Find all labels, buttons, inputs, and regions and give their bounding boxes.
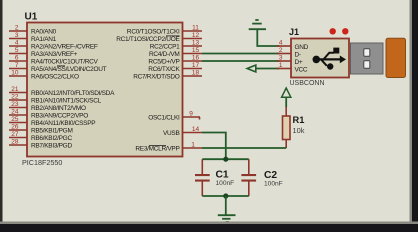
U1 left pin numbers: [11, 25, 19, 146]
J1 inside pin names: [295, 44, 309, 74]
svg-text:21: 21: [11, 86, 19, 93]
svg-text:RB6/KBI2/PGC: RB6/KBI2/PGC: [31, 135, 72, 142]
svg-text:3: 3: [279, 55, 283, 62]
U1 left pin labels: [31, 29, 115, 150]
wire D+ (U1 pin16 to J1 pin3): [202, 60, 280, 62]
svg-text:RA1/AN1: RA1/AN1: [31, 36, 57, 43]
svg-text:RB3/AN9/CCP2/VPO: RB3/AN9/CCP2/VPO: [31, 113, 88, 120]
svg-text:13: 13: [192, 40, 200, 47]
svg-text:RA4/T0CKI/C1OUT/RCV: RA4/T0CKI/C1OUT/RCV: [31, 59, 99, 66]
svg-text:14: 14: [192, 126, 200, 133]
svg-text:22: 22: [11, 94, 19, 101]
svg-text:D-: D-: [295, 52, 301, 59]
U1 right pin labels: [116, 29, 180, 153]
svg-text:RB0/AN12/INT0/FLT0/SDI/SDA: RB0/AN12/INT0/FLT0/SDI/SDA: [31, 90, 115, 97]
svg-text:RC4/D-/VM: RC4/D-/VM: [149, 51, 180, 58]
svg-text:VUSB: VUSB: [163, 130, 180, 137]
svg-text:26: 26: [11, 124, 19, 131]
svg-text:J1: J1: [289, 27, 299, 37]
svg-text:RC1/T1OSI/CCP2/UOE: RC1/T1OSI/CCP2/UOE: [116, 36, 180, 43]
chip U1 body: [22, 12, 183, 168]
svg-text:RA2/AN2/VREF-/CVREF: RA2/AN2/VREF-/CVREF: [31, 44, 98, 51]
svg-text:27: 27: [11, 131, 19, 138]
svg-text:7: 7: [15, 62, 19, 69]
ground (bottom): [218, 196, 236, 222]
svg-text:16: 16: [192, 55, 200, 62]
ground (top, inverted): [249, 20, 280, 46]
svg-text:1: 1: [191, 142, 195, 149]
svg-text:10k: 10k: [293, 126, 305, 135]
svg-text:RA0/AN0: RA0/AN0: [31, 29, 57, 36]
svg-text:RC7/RX/DT/SDO: RC7/RX/DT/SDO: [133, 74, 180, 81]
wire MCLR (U1 pin1 to R1 bottom): [202, 147, 286, 149]
svg-text:R1: R1: [293, 115, 305, 125]
U1 left pins (stubs): [9, 31, 27, 145]
svg-text:VCC: VCC: [295, 67, 308, 74]
capacitor C1: [195, 159, 234, 196]
power terminal (left arrow) on VCC: [247, 65, 279, 72]
svg-text:23: 23: [11, 101, 19, 108]
svg-text:17: 17: [192, 62, 200, 69]
svg-text:RC0/T1OSO/T1CKI: RC0/T1OSO/T1CKI: [127, 29, 180, 36]
U1 right pins (stubs): [183, 31, 203, 148]
svg-text:RB5/KBI1/PGM: RB5/KBI1/PGM: [31, 128, 73, 135]
svg-text:RB1/AN10/INT1/SCK/SCL: RB1/AN10/INT1/SCK/SCL: [31, 98, 102, 105]
svg-text:5: 5: [15, 47, 19, 54]
svg-text:RB2/AN8/INT2/VMO: RB2/AN8/INT2/VMO: [31, 105, 86, 112]
overlines: [57, 36, 180, 145]
wire D- (U1 pin15 to J1 pin2): [202, 53, 280, 55]
connector J1 body: [289, 27, 349, 87]
window frame edges (decorative): [0, 0, 3, 232]
svg-text:1: 1: [279, 62, 283, 69]
svg-text:RC5/D+/VP: RC5/D+/VP: [148, 59, 179, 66]
USB trident icon: [313, 48, 347, 70]
svg-text:28: 28: [11, 139, 19, 146]
svg-text:GND: GND: [295, 44, 309, 51]
svg-text:RC2/CCP1: RC2/CCP1: [150, 44, 180, 51]
svg-text:PIC18F2550: PIC18F2550: [22, 158, 62, 167]
svg-text:USBCONN: USBCONN: [290, 80, 325, 87]
svg-text:6: 6: [15, 55, 19, 62]
svg-text:2: 2: [279, 47, 283, 54]
svg-text:9: 9: [189, 111, 193, 118]
svg-text:100nF: 100nF: [264, 181, 283, 188]
svg-text:25: 25: [11, 116, 19, 123]
power terminal (up arrow) above R1: [282, 88, 291, 107]
svg-text:RA3/AN3/VREF+: RA3/AN3/VREF+: [31, 51, 78, 58]
svg-text:D+: D+: [295, 59, 303, 66]
svg-text:2: 2: [15, 25, 19, 32]
junction node bottom: [223, 193, 228, 198]
svg-text:RB4/AN11/KBI0/CSSPP: RB4/AN11/KBI0/CSSPP: [31, 120, 95, 127]
svg-text:OSC1/CLKI: OSC1/CLKI: [148, 115, 180, 122]
junction node top: [223, 157, 228, 162]
resistor R1: [283, 107, 305, 148]
svg-text:4: 4: [15, 40, 19, 47]
svg-text:RC6/TX/CK: RC6/TX/CK: [148, 66, 180, 73]
svg-text:24: 24: [11, 109, 19, 116]
svg-text:3: 3: [15, 32, 19, 39]
svg-text:100nF: 100nF: [216, 180, 235, 187]
wire VUSB to caps: [202, 133, 226, 160]
svg-text:15: 15: [192, 47, 200, 54]
svg-text:RA6/OSC2/CLKO: RA6/OSC2/CLKO: [31, 74, 79, 81]
svg-text:18: 18: [192, 70, 200, 77]
svg-text:4: 4: [279, 40, 283, 47]
J1 red dots: [330, 28, 349, 34]
U1 right pin numbers: [189, 25, 199, 149]
svg-text:RA5/AN4/SS/LVDIN/C2OUT: RA5/AN4/SS/LVDIN/C2OUT: [31, 66, 107, 73]
svg-text:11: 11: [192, 25, 199, 32]
bottom rail wire: [202, 195, 249, 197]
top rail wire (C1-C2): [202, 158, 249, 160]
J1 pin stubs: [277, 46, 292, 69]
USB plug orange end: [386, 38, 406, 77]
svg-text:C2: C2: [264, 170, 277, 181]
svg-text:C1: C1: [216, 170, 229, 181]
USB metal shell: [351, 43, 384, 74]
svg-text:10: 10: [11, 70, 19, 77]
J1 pin numbers: [279, 40, 283, 70]
svg-text:RE3/MCLR/VPP: RE3/MCLR/VPP: [135, 146, 179, 153]
svg-text:U1: U1: [25, 12, 38, 23]
svg-text:12: 12: [192, 32, 200, 39]
capacitor C2: [241, 159, 282, 196]
svg-text:RB7/KBI3/PGD: RB7/KBI3/PGD: [31, 143, 72, 150]
